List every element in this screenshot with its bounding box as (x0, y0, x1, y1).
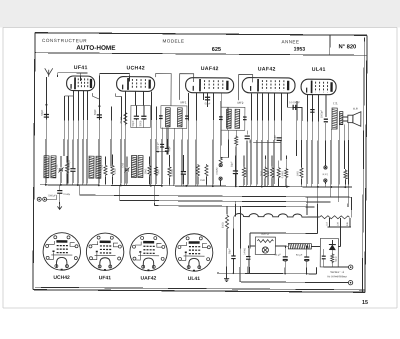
svg-text:H.P.: H.P. (353, 107, 359, 111)
resistor 1M (270, 167, 273, 179)
switch contact R.P.1 (324, 166, 327, 169)
terminal PU (43, 197, 47, 201)
capacitor tone 5000pF (324, 119, 328, 122)
wire (142, 92, 144, 106)
svg-text:0.5MΩ: 0.5MΩ (281, 171, 284, 178)
wire (135, 119, 137, 127)
svg-text:10kΩ: 10kΩ (144, 169, 147, 175)
wire (256, 93, 259, 186)
tap 110V (329, 218, 331, 227)
wire (98, 99, 101, 185)
coil MF2 secondary (235, 109, 240, 128)
coil L3 oscillator (89, 156, 94, 178)
wire (250, 245, 255, 247)
svg-text:15: 15 (362, 300, 368, 306)
wire (167, 128, 169, 155)
wire to volume pot (221, 157, 229, 159)
svg-text:1MΩ: 1MΩ (296, 171, 299, 176)
svg-text:0.2MΩ: 0.2MΩ (171, 169, 174, 176)
wire (273, 94, 276, 187)
ground power (224, 279, 229, 282)
wire (331, 250, 333, 253)
wire (195, 93, 198, 186)
coil L4 (96, 156, 101, 178)
wire speaker lead 2 (343, 120, 348, 122)
wire (287, 106, 302, 108)
wire UCH42 top to MF1 (155, 73, 171, 105)
capacitor 50pF coupling (205, 97, 210, 100)
wire (249, 233, 251, 273)
wire (86, 91, 89, 185)
wire (98, 73, 100, 99)
svg-text:2MΩ: 2MΩ (260, 171, 263, 176)
wire (77, 91, 80, 185)
wire (187, 93, 190, 186)
resistor 10k (148, 165, 151, 177)
wire (311, 95, 314, 187)
power return bus (217, 272, 316, 275)
wire (317, 95, 320, 187)
wire (323, 259, 325, 267)
wire (311, 245, 320, 247)
wire (316, 267, 318, 274)
return bus 2 (120, 200, 331, 202)
node (45, 104, 47, 106)
wire (150, 92, 153, 186)
svg-text:1MΩ: 1MΩ (200, 179, 205, 182)
resistor mains dropper (320, 216, 350, 219)
return bus 3 (155, 206, 315, 207)
svg-text:MF2: MF2 (237, 101, 243, 105)
svg-text:T.S.: T.S. (333, 102, 338, 106)
coil L2 (51, 156, 56, 178)
wire (323, 249, 325, 256)
wire (246, 130, 248, 134)
lamp shunt box (255, 237, 275, 255)
resistor 2M (264, 167, 267, 179)
wire (286, 94, 288, 108)
svg-text:0.5MΩ: 0.5MΩ (216, 167, 219, 174)
node (98, 105, 100, 107)
wire (202, 93, 204, 100)
pilot lamp (262, 247, 268, 253)
capacitor 10000pF tracking (70, 169, 75, 172)
wire mains (239, 206, 242, 281)
wire (79, 185, 81, 195)
header divider (329, 35, 331, 55)
wire (235, 146, 237, 186)
resistor 400 ohm (257, 239, 273, 242)
svg-text:50μF: 50μF (168, 145, 171, 151)
svg-text:AUTO-HOME: AUTO-HOME (76, 45, 116, 52)
wire (331, 264, 333, 267)
wire MF2 lead (228, 130, 230, 157)
wire (220, 93, 223, 157)
heater chain (235, 213, 308, 217)
svg-text:10n: 10n (249, 139, 252, 144)
wire (124, 91, 127, 185)
wire (235, 130, 237, 135)
wire (57, 73, 59, 77)
tube base UAF42 (130, 233, 168, 271)
svg-text:50pF: 50pF (205, 103, 211, 106)
main bus (40, 185, 352, 187)
wire to mains terminal (240, 281, 348, 284)
IF transformer MF1 box (161, 106, 187, 129)
svg-text:20 kΩ: 20 kΩ (119, 117, 123, 124)
wire jog (65, 93, 74, 96)
svg-text:500Ω: 500Ω (221, 222, 224, 228)
terminal mains 2 (348, 280, 352, 284)
capacitor 50uF AF (277, 138, 282, 141)
svg-text:50pF: 50pF (93, 109, 97, 115)
wire (306, 261, 308, 273)
wire (226, 206, 228, 214)
wire (275, 245, 288, 247)
wire (261, 93, 264, 186)
capacitor 50pF (233, 171, 238, 174)
capacitor 3000pF osc (141, 116, 146, 119)
wire (134, 91, 136, 105)
terminal PU (37, 197, 41, 201)
tap 130V (340, 218, 342, 227)
tube UL41 (envelope) (301, 79, 336, 95)
schematic frame (33, 33, 367, 293)
wire to terminal (324, 266, 349, 268)
svg-text:50pF: 50pF (40, 109, 44, 115)
wire (226, 230, 228, 273)
switch contact (219, 164, 222, 167)
wire grid cap entry (80, 73, 82, 81)
wire (235, 201, 237, 216)
wire (120, 96, 123, 185)
resistor (104, 164, 107, 176)
switch contact (219, 177, 222, 180)
wire (232, 259, 234, 273)
wire (247, 245, 249, 256)
tube UAF42 no.1 (envelope) (186, 78, 234, 93)
wire (284, 246, 286, 256)
resistor osc padder (65, 162, 68, 174)
wire (247, 260, 249, 274)
svg-text:5000pF: 5000pF (320, 109, 323, 118)
wire UAF42 grid cap (179, 74, 193, 100)
wire (67, 96, 70, 185)
capacitor 50uF no.2 (304, 257, 309, 260)
svg-text:10 000 pF: 10 000 pF (69, 159, 71, 170)
capacitor MF1 trim (159, 116, 163, 119)
wire (267, 94, 270, 187)
capacitor 10000pF (160, 144, 164, 147)
wire (331, 240, 333, 244)
wire (347, 123, 350, 207)
loudspeaker H.P. (348, 112, 361, 127)
rectifier box (320, 238, 338, 267)
wire UAF42 no.2 grid cap (238, 75, 252, 101)
wire (343, 125, 345, 169)
wire grid cap UCH42 (100, 72, 130, 74)
wire (325, 95, 327, 117)
svg-text:UF41: UF41 (99, 275, 111, 281)
tap bar (328, 226, 351, 228)
capacitor rect (322, 256, 326, 259)
tube UF41 (envelope) (67, 76, 95, 91)
wire (155, 107, 158, 186)
svg-text:1953: 1953 (294, 47, 306, 53)
svg-text:UAF42: UAF42 (258, 66, 276, 72)
wire jog (92, 93, 99, 99)
terminal mains 1 (348, 265, 352, 269)
wire (143, 106, 145, 116)
wire speaker lead 1 (343, 116, 348, 118)
resistor AVC 1 (196, 164, 199, 177)
resistor cathode (277, 167, 280, 179)
svg-text:1MΩ: 1MΩ (267, 171, 270, 176)
tube UAF42 no.2 (envelope) (242, 78, 295, 94)
svg-text:10 000pF: 10 000pF (289, 101, 300, 104)
svg-text:ou convertisseur: ou convertisseur (327, 274, 347, 278)
svg-text:47kΩ: 47kΩ (114, 168, 117, 174)
svg-text:50μF: 50μF (274, 134, 277, 140)
svg-text:CV1: CV1 (55, 164, 58, 169)
capacitor screen (181, 172, 186, 175)
svg-text:0.5Mμ: 0.5Mμ (63, 193, 70, 196)
wire (232, 216, 234, 255)
diode rectifier (329, 245, 336, 251)
wire (72, 91, 75, 156)
ground arrow (57, 204, 61, 210)
svg-text:3000: 3000 (139, 120, 142, 126)
coil (138, 156, 143, 178)
wire (350, 197, 352, 217)
wire (339, 227, 341, 247)
svg-text:50 μF: 50 μF (274, 254, 281, 257)
wire (110, 106, 112, 166)
wire (46, 195, 57, 200)
wire power top (250, 232, 317, 235)
wire (306, 246, 308, 256)
coil L1 antenna (44, 156, 49, 178)
capacitor 50uF (165, 148, 169, 151)
capacitor 10000pF det (245, 136, 250, 139)
svg-text:UCH42: UCH42 (53, 275, 70, 281)
wire (181, 128, 183, 186)
return bus 1 (80, 195, 352, 197)
resistor 0.1M (242, 166, 245, 178)
wire (135, 105, 137, 115)
capacitor mains filter (246, 257, 250, 260)
wire (155, 152, 157, 166)
wire (338, 246, 340, 248)
coil MF1 primary (165, 108, 170, 127)
antenna (45, 68, 53, 77)
trimmer CA3 (125, 169, 129, 171)
resistor 0.2M (168, 166, 171, 178)
oscillator box (131, 105, 151, 127)
wire (308, 216, 320, 218)
svg-text:0.1MΩ: 0.1MΩ (245, 170, 248, 177)
antenna lead (45, 77, 48, 185)
resistor 500 ohm dropper (225, 214, 228, 230)
svg-text:UAF42: UAF42 (140, 276, 156, 282)
capacitor 50uF no.1 (283, 257, 288, 260)
resistor 20k (124, 111, 127, 125)
svg-text:1kΩ: 1kΩ (157, 169, 160, 174)
wire (316, 187, 318, 233)
wire (173, 128, 175, 186)
wire (306, 197, 308, 215)
svg-text:CA3: CA3 (121, 162, 124, 167)
IF transformer MF2 box (221, 107, 245, 130)
svg-text:R.P.1: R.P.1 (323, 173, 329, 176)
svg-text:Secteur ~ à: Secteur ~ à (330, 270, 344, 274)
svg-text:CV2: CV2 (100, 164, 103, 169)
svg-text:50 Ω: 50 Ω (335, 256, 338, 261)
wire grid cap entry (129, 74, 131, 82)
svg-text:MODELE: MODELE (163, 39, 185, 44)
wire jog (116, 93, 122, 96)
wire (296, 101, 298, 156)
wire (280, 94, 283, 161)
svg-text:N° 820: N° 820 (338, 44, 356, 50)
wire (246, 140, 248, 186)
capacitor 100pF (310, 110, 314, 113)
header separator (35, 53, 367, 56)
resistor AVC 2 (205, 164, 208, 177)
filter choke (288, 243, 311, 249)
resistor volume pot top (219, 157, 222, 164)
wire (306, 95, 309, 187)
wire (324, 123, 326, 166)
output transformer secondary (339, 112, 343, 125)
svg-text:500Ω: 500Ω (347, 173, 350, 179)
capacitor MF1 trim (185, 116, 189, 119)
coil MF2 primary (226, 109, 231, 128)
wire (250, 93, 253, 186)
svg-text:14 MΩ: 14 MΩ (244, 248, 246, 255)
svg-text:UL41: UL41 (312, 67, 326, 73)
wire (212, 93, 215, 186)
output transformer T.S. primary (332, 108, 337, 129)
wire (63, 96, 65, 156)
svg-text:UF41: UF41 (74, 65, 88, 71)
wire (227, 107, 229, 130)
wire (154, 186, 156, 206)
tube base UF41 (86, 233, 124, 271)
tap 245V (349, 218, 351, 227)
svg-text:UAF42: UAF42 (201, 66, 219, 72)
svg-text:CONSTRUCTEUR: CONSTRUCTEUR (42, 38, 87, 43)
resistor 50 ohm (331, 253, 334, 264)
tube base UCH42 (43, 233, 81, 271)
svg-text:UL41: UL41 (188, 276, 200, 282)
wire (143, 119, 145, 127)
wire (284, 261, 286, 273)
wire (338, 124, 341, 202)
resistor 1M grid (300, 167, 303, 179)
wire (330, 129, 333, 197)
resistor detector (235, 135, 238, 146)
coil MF1 secondary (177, 108, 182, 127)
svg-text:MF1: MF1 (180, 100, 186, 104)
wire (300, 108, 302, 167)
capacitor MF2 trim (243, 117, 247, 120)
capacitor 50pF (97, 115, 102, 118)
resistor 0.5M (285, 168, 288, 179)
capacitor 50pF antenna (44, 114, 49, 117)
svg-text:50pF: 50pF (132, 120, 135, 126)
resistor 47k (111, 164, 114, 176)
wire (206, 93, 208, 107)
wire junction (156, 151, 167, 153)
svg-text:50pF: 50pF (230, 161, 233, 167)
svg-text:400 Ω: 400 Ω (261, 232, 269, 236)
resistor 500 ohm (344, 169, 347, 180)
capacitor 1000pF (57, 191, 62, 194)
wire (161, 128, 163, 186)
resistor 1k (154, 166, 157, 177)
coil osc padding (131, 155, 136, 177)
wire (226, 273, 228, 278)
svg-text:ANNEE: ANNEE (282, 39, 300, 44)
capacitor MF2 trim (219, 117, 223, 120)
svg-text:625: 625 (212, 47, 221, 53)
svg-text:50μF: 50μF (228, 248, 231, 254)
tube base UL41 (175, 234, 213, 272)
svg-text:50 μF: 50 μF (296, 254, 303, 257)
capacitor 50uF heater (231, 256, 235, 259)
capacitor 50pF osc (134, 116, 139, 119)
wire (82, 91, 85, 185)
switch contact (324, 179, 327, 182)
wire grid cap UF41 (58, 72, 88, 74)
capacitor 10000pF grid UL41 (293, 105, 296, 110)
svg-text:UCH42: UCH42 (126, 65, 145, 71)
tube UCH42 (envelope) (117, 77, 155, 92)
trimmer CV1 (59, 169, 63, 171)
wire AF coupling (253, 141, 281, 143)
svg-text:1000μF: 1000μF (48, 194, 57, 197)
wire (119, 185, 121, 200)
